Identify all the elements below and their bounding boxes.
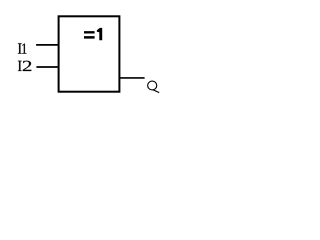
input label I2 bbox=[18, 61, 31, 71]
gate function label =1 bbox=[84, 28, 102, 40]
XOR gate U1 (IEC =1 box) bbox=[59, 16, 120, 91]
wire I1 bbox=[36, 44, 58, 46]
input label I1 bbox=[18, 43, 27, 53]
wire Q bbox=[119, 77, 145, 79]
wire I2 bbox=[36, 66, 58, 68]
output label Q bbox=[148, 81, 160, 93]
